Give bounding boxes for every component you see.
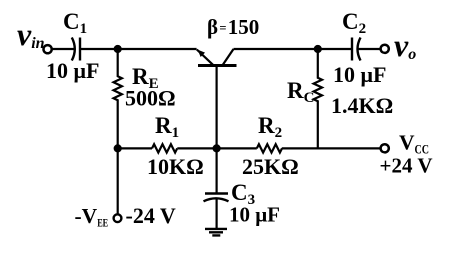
svg-text:25KΩ: 25KΩ (242, 154, 299, 179)
svg-text:10 μF: 10 μF (46, 58, 99, 83)
wire top-left from vin terminal to C1 (52, 48, 75, 50)
svg-text:+24 V: +24 V (380, 154, 433, 178)
resistor RC (314, 49, 322, 148)
wire R2 to VCC terminal (282, 147, 381, 149)
wire collector to node B (234, 48, 318, 50)
wire node D down to C3 (216, 148, 218, 193)
wire node A to transistor emitter (118, 48, 197, 50)
svg-text:10 μF: 10 μF (333, 62, 386, 87)
capacitor C1 straight plate (79, 38, 81, 61)
wire node B to C2 (318, 48, 352, 50)
node A (114, 45, 122, 53)
resistor R1 (152, 144, 177, 152)
wire transistor base to node D (216, 65, 218, 148)
wire node C to R1 (118, 147, 152, 149)
capacitor C1 curved plate (72, 38, 75, 61)
ground (205, 229, 227, 236)
node D (213, 144, 221, 152)
svg-text:1.4KΩ: 1.4KΩ (331, 93, 393, 118)
capacitor C2 straight plate (351, 38, 353, 61)
capacitor C3 straight plate (205, 192, 228, 194)
transistor Q1 collector line (223, 49, 234, 65)
transistor Q1 emitter line (197, 50, 214, 66)
transistor Q1 emitter arrow (198, 50, 205, 57)
wire C3 to ground (216, 198, 218, 228)
terminal vin (44, 45, 52, 53)
node C (114, 144, 122, 152)
svg-text:-24 V: -24 V (126, 203, 176, 228)
wire node D to R2 (217, 147, 257, 149)
svg-text:10 μF: 10 μF (229, 203, 280, 227)
transistor Q1 base bar (198, 64, 237, 67)
capacitor C3 curved plate (204, 198, 229, 201)
wire node C down to -VEE terminal (117, 148, 119, 214)
terminal -VEE (114, 214, 122, 222)
svg-text:10KΩ: 10KΩ (147, 154, 204, 179)
wire C2 to vo terminal (358, 48, 381, 50)
svg-text:β=150: β=150 (207, 15, 259, 39)
terminal vo (381, 45, 389, 53)
wire R1 to node D (177, 147, 216, 149)
capacitor C2 curved plate (358, 38, 361, 61)
svg-text:500Ω: 500Ω (125, 86, 176, 111)
wire C1 to node A (80, 48, 118, 50)
terminal VCC (381, 144, 389, 152)
resistor RE (113, 49, 121, 148)
resistor R2 (257, 144, 282, 152)
node B (314, 45, 322, 53)
